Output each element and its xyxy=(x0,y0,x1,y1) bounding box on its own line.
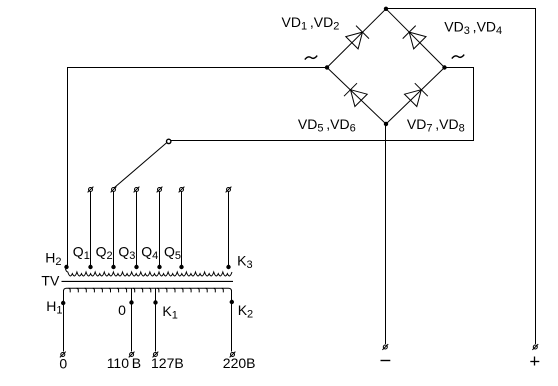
svg-text:Q5: Q5 xyxy=(164,244,181,263)
svg-text:Q3: Q3 xyxy=(118,244,135,263)
svg-text:127В: 127В xyxy=(151,355,184,371)
svg-text:K2: K2 xyxy=(238,302,253,321)
svg-text:VD3 ,VD4: VD3 ,VD4 xyxy=(444,19,502,38)
svg-text:K3: K3 xyxy=(237,253,252,272)
svg-text:H1: H1 xyxy=(46,298,62,317)
svg-text:Q2: Q2 xyxy=(96,244,113,263)
svg-text:K1: K1 xyxy=(162,303,177,322)
svg-text:0: 0 xyxy=(118,302,126,318)
svg-text:220В: 220В xyxy=(223,355,256,371)
svg-text:Q4: Q4 xyxy=(141,244,158,263)
svg-text:110 В: 110 В xyxy=(107,355,141,371)
svg-text:VD7 ,VD8: VD7 ,VD8 xyxy=(407,116,465,135)
svg-text:VD5 ,VD6: VD5 ,VD6 xyxy=(298,116,356,135)
svg-text:Q1: Q1 xyxy=(73,244,90,263)
svg-text:VD1 ,VD2: VD1 ,VD2 xyxy=(282,14,340,33)
svg-text:0: 0 xyxy=(59,356,67,372)
svg-text:TV: TV xyxy=(41,273,60,289)
svg-text:H2: H2 xyxy=(45,250,61,269)
